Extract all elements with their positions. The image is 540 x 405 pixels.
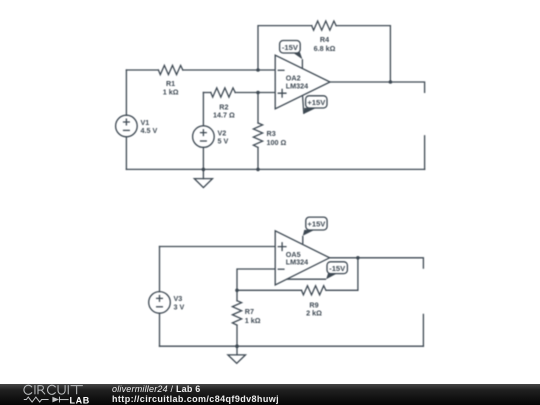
- svg-text:R3: R3: [267, 129, 276, 138]
- svg-text:6.8 kΩ: 6.8 kΩ: [314, 44, 336, 53]
- svg-text:R7: R7: [245, 307, 254, 316]
- svg-text:4.5 V: 4.5 V: [141, 126, 158, 135]
- svg-text:LM324: LM324: [286, 258, 308, 267]
- svg-text:1 kΩ: 1 kΩ: [163, 87, 179, 96]
- svg-text:100 Ω: 100 Ω: [267, 138, 287, 147]
- svg-text:5 V: 5 V: [218, 137, 229, 146]
- svg-text:2 kΩ: 2 kΩ: [306, 308, 322, 317]
- svg-text:-15V: -15V: [329, 264, 346, 273]
- svg-text:+15V: +15V: [307, 220, 326, 229]
- svg-text:+15V: +15V: [307, 98, 326, 107]
- svg-text:1 kΩ: 1 kΩ: [245, 316, 261, 325]
- svg-text:LM324: LM324: [286, 81, 308, 90]
- svg-text:LAB: LAB: [69, 396, 89, 405]
- svg-text:14.7 Ω: 14.7 Ω: [213, 111, 235, 120]
- svg-text:3 V: 3 V: [174, 302, 185, 311]
- svg-text:-15V: -15V: [282, 43, 299, 52]
